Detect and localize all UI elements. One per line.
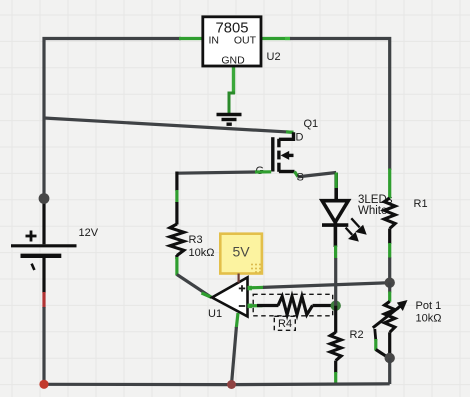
wire op-amp +input to R1/pot junction <box>250 283 390 288</box>
regulator U2 7805 box <box>203 17 261 67</box>
wire 7805 OUT to right rail down to R1 <box>262 39 390 171</box>
svg-text:R4: R4 <box>278 318 292 330</box>
svg-text:U1: U1 <box>208 308 222 320</box>
svg-text:GND: GND <box>221 55 245 67</box>
wire pot junction to bottom rail <box>388 358 391 384</box>
wire gate of Q1 to R3 top <box>177 172 271 173</box>
node junction pot bottom <box>385 353 395 363</box>
potentiometer Pot 1 <box>373 283 402 358</box>
node bottom-center (red) <box>227 380 236 389</box>
node junction battery top <box>39 193 50 204</box>
svg-text:R2: R2 <box>350 329 364 341</box>
wire diagonal from battery rail to Q1 drain <box>44 118 294 132</box>
wire LED cathode down to junction <box>334 258 337 306</box>
wire battery negative (red segment) to bottom rail <box>42 292 45 385</box>
resistor R2 <box>330 306 341 384</box>
svg-text:10kΩ: 10kΩ <box>416 313 442 325</box>
LED 3LEDs White <box>322 173 348 248</box>
svg-text:R3: R3 <box>189 234 203 246</box>
node junction R4/R2/LED (green) <box>331 301 341 311</box>
svg-text:U2: U2 <box>267 51 281 63</box>
resistor R1 <box>384 169 395 283</box>
selection box around R4 <box>253 294 333 330</box>
ground <box>217 115 242 125</box>
svg-text:OUT: OUT <box>234 35 257 47</box>
svg-text:Q1: Q1 <box>304 118 319 130</box>
wire bottom rail <box>44 382 390 386</box>
node junction R1/pot/+input <box>385 278 395 288</box>
svg-text:5V: 5V <box>232 244 250 260</box>
transistor Q1 (N-MOSFET) <box>273 132 295 172</box>
wire 7805 GND to ground <box>229 66 235 114</box>
op-amp U1 <box>212 277 252 316</box>
svg-text:Pot 1: Pot 1 <box>416 300 442 312</box>
node bottom-left (red) <box>39 380 48 389</box>
resistor R3 <box>170 172 184 276</box>
label 3LEDs White <box>358 194 393 217</box>
resistor R4 (selected) <box>250 296 336 314</box>
svg-text:12V: 12V <box>79 227 99 239</box>
svg-text:S: S <box>297 172 304 184</box>
label Pot 1 value <box>416 300 442 325</box>
note pointer line to U1 V+ <box>238 274 240 283</box>
battery 12V <box>11 198 77 293</box>
label R3 value <box>189 234 215 259</box>
wire top rail left (battery + to 7805 IN) <box>44 39 202 200</box>
svg-text:10kΩ: 10kΩ <box>189 247 215 259</box>
wire R3 bottom to op-amp output <box>177 275 212 298</box>
svg-text:IN: IN <box>209 35 220 47</box>
svg-text:D: D <box>296 132 304 144</box>
note box 5V <box>220 234 262 274</box>
wire Q1 source to LED anode <box>295 172 337 177</box>
svg-text:R1: R1 <box>414 198 428 210</box>
wire op-amp V- to bottom rail <box>232 313 239 384</box>
